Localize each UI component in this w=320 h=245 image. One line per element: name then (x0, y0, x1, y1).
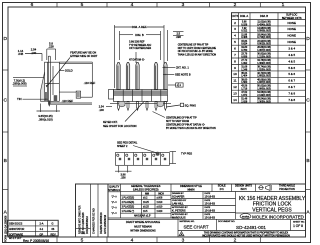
svg-text:(UNLESS SPECIFIED): (UNLESS SPECIFIED) (133, 188, 159, 191)
svg-text:DIM. B: DIM. B (260, 14, 268, 18)
svg-text:±.010: ±.010 (157, 207, 163, 209)
svg-text:.380(±.010): .380(±.010) (38, 117, 52, 121)
proprietary notice text (202, 231, 290, 237)
svg-text:4-2: 4-2 (40, 228, 44, 231)
svg-text:1.560: 1.560 (241, 81, 248, 84)
bottom view: pin pads (dark squares) (119, 158, 121, 160)
svg-text:5 & 6: 5 & 6 (288, 72, 295, 76)
svg-text:1.681(±.015): 1.681(±.015) (257, 75, 271, 78)
svg-text:▽-○: ▽-○ (111, 206, 117, 210)
svg-text:2-A: 2-A (40, 222, 44, 225)
svg-text:14: 14 (233, 98, 237, 102)
svg-text:1.872: 1.872 (241, 94, 248, 97)
front view: friction lock tab (left) (109, 90, 114, 100)
svg-text:4 & 5: 4 & 5 (288, 59, 295, 63)
svg-text:2.149(±.015): 2.149(±.015) (257, 94, 271, 97)
svg-text:MARGULIS: MARGULIS (172, 216, 186, 220)
svg-text:SQ. PINS: SQ. PINS (185, 103, 197, 107)
svg-text:3 PLACE(S): 3 PLACE(S) (122, 206, 135, 209)
svg-text:NONE: NONE (288, 40, 296, 44)
svg-text:CKT. NO. 1: CKT. NO. 1 (176, 65, 190, 69)
svg-text:SYMBOLS: SYMBOLS (108, 189, 120, 192)
front view: DIM. A REF. dimension (114, 25, 116, 88)
svg-text:MUST REMAIN: MUST REMAIN (134, 225, 152, 228)
front view: shaded slot band (114, 90, 167, 94)
svg-text:G: G (52, 222, 54, 225)
third angle projection cell (171, 191, 306, 193)
drawing title text (239, 196, 306, 214)
svg-text:0.156: 0.156 (241, 23, 248, 26)
dim 1.14/.045 leader (upper left) (18, 49, 24, 56)
draft where applicable box (126, 221, 160, 233)
dim 0.4/.016 left of tails (99, 105, 105, 112)
side view: pin (vertical, with solder tail) (47, 56, 49, 101)
chart table data rows (232, 25, 306, 27)
svg-text:SD-42491-001: SD-42491-001 (236, 225, 266, 230)
svg-text:CENTERLINE OF PIN AT TIP: CENTERLINE OF PIN AT TIP (178, 43, 209, 46)
quality symbol marks (111, 195, 117, 216)
title block outer frame (108, 184, 306, 237)
svg-text:▽-○: ▽-○ (111, 195, 117, 199)
svg-text:5 & 6: 5 & 6 (288, 66, 295, 70)
svg-text:1.993(±.015): 1.993(±.015) (257, 88, 271, 91)
svg-text:molex: molex (242, 214, 250, 218)
svg-text:PROJECTION: PROJECTION (279, 188, 295, 191)
svg-text:GEN DOCS: GEN DOCS (9, 222, 23, 225)
chart table column lines (238, 13, 240, 103)
svg-text:1.092: 1.092 (241, 62, 248, 65)
svg-text:BY MORE THAN 0.25/.010 IN ANY: BY MORE THAN 0.25/.010 IN ANY DIRECTION (166, 127, 216, 130)
svg-text:NOT TO VARY FROM: NOT TO VARY FROM (166, 120, 189, 123)
dim 2.5/.098 right of front view (167, 30, 169, 61)
side view: phantom mating outline right (59, 61, 92, 63)
svg-text:CENTERLINE OF PIN AT DATUM -D-: CENTERLINE OF PIN AT DATUM -D- (166, 123, 205, 126)
drawn/checked/approved rows (235, 192, 237, 220)
projection symbol (259, 186, 263, 190)
svg-text:MOLEX INCORPORATED: MOLEX INCORPORATED (252, 214, 304, 219)
front view: pin solder tails (118, 102, 120, 111)
svg-text:AT DATUM -D-: AT DATUM -D- (129, 59, 145, 62)
svg-text:MM/IN: MM/IN (187, 189, 194, 192)
svg-text:.110 REF: .110 REF (84, 81, 96, 85)
svg-text:DIM. A REF.: DIM. A REF. (132, 25, 147, 29)
svg-text:SEE CHART: SEE CHART (183, 224, 208, 229)
svg-text:Rev. P 2005/06/16: Rev. P 2005/06/16 (23, 239, 49, 243)
svg-text:GP: GP (40, 233, 44, 236)
dim TYP PEG right of bottom view (172, 152, 174, 164)
note: centerline of pin at tip (upper right) (178, 43, 217, 56)
svg-text:6 & 7: 6 & 7 (288, 79, 295, 83)
front view: board line below body (110, 103, 171, 105)
svg-text:BETWEEN CKTS: BETWEEN CKTS (282, 17, 302, 20)
svg-text:3: 3 (182, 238, 185, 244)
GD&T feature control frame (176, 83, 183, 87)
svg-text:SHEET 2: SHEET 2 (117, 145, 128, 148)
dim 9.65/.380 bottom (40, 104, 42, 113)
revision block frame (76, 184, 109, 237)
svg-text:CENTERLINE OF PIN AT TIP: CENTERLINE OF PIN AT TIP (166, 117, 197, 120)
proprietary notice box (178, 230, 306, 232)
svg-text:.100: .100 (99, 108, 105, 112)
scale cell (231, 184, 233, 192)
svg-text:THAN 0.25/.010 IN ANY DIRECTIO: THAN 0.25/.010 IN ANY DIRECTION (178, 54, 217, 57)
dimension style cell (211, 184, 213, 192)
svg-text:2.028: 2.028 (241, 100, 248, 103)
svg-text:15-16-83: 15-16-83 (205, 216, 216, 220)
svg-text:2: 2 (234, 21, 236, 25)
svg-text:6: 6 (31, 2, 34, 8)
molex logo and company row (236, 212, 306, 214)
svg-text:0.624: 0.624 (241, 43, 248, 46)
design units cell (255, 184, 257, 192)
zone column numbers top (31, 2, 285, 8)
bottom-left approval table (7, 220, 58, 236)
zone tick marks left/right (3, 69, 9, 71)
note: centerline of pin at tip (lower) (166, 117, 216, 130)
svg-text:0.590(±.015): 0.590(±.015) (257, 30, 271, 33)
svg-text:NONE: NONE (288, 21, 296, 25)
quality symbols box (120, 184, 122, 218)
bottom view: body outline (116, 153, 170, 166)
svg-text:0.468: 0.468 (241, 36, 248, 39)
svg-text:LAM HILL: LAM HILL (172, 202, 184, 206)
svg-text:C: C (3, 98, 7, 104)
svg-text:G1: G1 (81, 231, 86, 235)
svg-text:13: 13 (233, 92, 237, 96)
svg-text:3: 3 (182, 2, 185, 8)
side view: housing body outline (45, 62, 60, 101)
svg-text:INCORPORATED AND SHOULD NOT BE: INCORPORATED AND SHOULD NOT BE USED WITH… (202, 234, 290, 237)
svg-text:1: 1 (282, 2, 285, 8)
front view: pitch note 3.96/.156 TYP (129, 41, 152, 62)
label KEYED CKT / SEE CHART FOR LOCATION (103, 121, 137, 128)
svg-text:10: 10 (233, 72, 237, 76)
svg-text:ANNOTATOR: ANNOTATOR (9, 228, 24, 231)
svg-text:6 & 7: 6 & 7 (288, 85, 295, 89)
svg-text:WITHIN DIMENSIONS: WITHIN DIMENSIONS (130, 230, 156, 233)
svg-text:8: 8 (234, 59, 236, 63)
zone column numbers bottom (81, 238, 237, 244)
svg-text:±0.5: ±0.5 (143, 211, 148, 213)
svg-text:1.248: 1.248 (241, 68, 248, 71)
svg-text:DRAWN 2005/06/16: DRAWN 2005/06/16 (100, 212, 103, 234)
svg-text:7 & 8: 7 & 8 (288, 92, 295, 96)
dim 2.54/.100 (top) (31, 48, 37, 55)
svg-text:2 PLACE(S): 2 PLACE(S) (122, 201, 135, 204)
svg-text:0.434(±.015): 0.434(±.015) (257, 23, 271, 26)
tolerance rows (121, 197, 172, 218)
label 0.76/.030 SQ. PINS (180, 103, 183, 106)
front view: pins (5x vertical square pins) (117, 63, 120, 90)
svg-text:15-16-83: 15-16-83 (205, 209, 216, 213)
svg-text:DESIGN UNITS: DESIGN UNITS (235, 184, 252, 187)
dim 7.5/.295 left (12, 78, 26, 85)
svg-text:.228: .228 (48, 45, 54, 49)
svg-text:DRAFT WHERE APPLICABLE: DRAFT WHERE APPLICABLE (126, 221, 160, 224)
svg-text:±0.2: ±0.2 (143, 198, 148, 200)
side view: friction lock ramp (41, 72, 45, 101)
svg-text:KEYED CKT.: KEYED CKT. (103, 121, 118, 124)
chart table frame (232, 13, 306, 103)
svg-text:±.020: ±.020 (157, 211, 163, 213)
svg-text:1.057(±.015): 1.057(±.015) (257, 49, 271, 52)
svg-text:MATERIAL NO.: MATERIAL NO. (180, 220, 196, 223)
svg-text:SCALE: SCALE (218, 184, 226, 187)
note: FEATURE MAY BE ON EITHER SIDE OF PART (70, 51, 97, 57)
svg-text:±0.25: ±0.25 (143, 207, 149, 209)
side view: pcb line (51, 102, 93, 104)
svg-text:1.837(±.015): 1.837(±.015) (257, 81, 271, 84)
svg-text:TIN: TIN (17, 97, 22, 101)
svg-text:15-16-83: 15-16-83 (205, 202, 216, 206)
svg-text:C: C (306, 98, 310, 104)
svg-text:0.312: 0.312 (241, 30, 248, 33)
svg-text:.045: .045 (18, 52, 24, 56)
zone row letters right (306, 36, 310, 216)
side view: pin solder tip (dark) (48, 101, 50, 107)
svg-text:GOLD: GOLD (65, 69, 73, 73)
svg-text:NOT TO VARY FROM CENTERLINE: NOT TO VARY FROM CENTERLINE (178, 47, 217, 50)
svg-text:INCH: INCH (241, 188, 247, 191)
svg-text:5: 5 (234, 40, 236, 44)
svg-text:2.305(±.015): 2.305(±.015) (257, 100, 271, 103)
svg-text:.110 REF: .110 REF (62, 99, 74, 103)
svg-text:0.746(±.015): 0.746(±.015) (257, 36, 271, 39)
svg-text:▽-○: ▽-○ (111, 200, 117, 204)
svg-text:DOCUMENT NO.: DOCUMENT NO. (218, 221, 235, 223)
svg-text:2=1: 2=1 (220, 188, 225, 191)
svg-text:D: D (306, 36, 310, 42)
svg-text:▽-○: ▽-○ (111, 211, 117, 215)
revision letter cells (76, 228, 91, 230)
svg-text:0.902(±.015): 0.902(±.015) (257, 43, 271, 46)
svg-text:SEE CHART FOR LOCATION: SEE CHART FOR LOCATION (103, 125, 137, 128)
svg-text:±0.25: ±0.25 (143, 202, 149, 204)
svg-text:EITHER SIDE OF PART: EITHER SIDE OF PART (70, 55, 97, 58)
svg-text:A: A (181, 232, 183, 236)
svg-text:.156: .156 (120, 176, 126, 180)
svg-text:1 PLACE(S): 1 PLACE(S) (122, 197, 135, 200)
svg-text:B: B (306, 158, 309, 164)
svg-text:THIS DRAWING CONTAINS INFORMAT: THIS DRAWING CONTAINS INFORMATION THAT I… (204, 231, 289, 234)
svg-text:9: 9 (234, 66, 236, 70)
front view: housing body (114, 90, 168, 102)
bottom view: highlighted peg (filled) (156, 152, 160, 156)
svg-text:1.404: 1.404 (241, 75, 248, 78)
svg-text:APPR 2005/06/16: APPR 2005/06/16 (104, 214, 107, 234)
svg-text:1.716: 1.716 (241, 88, 248, 91)
svg-text:2: 2 (234, 238, 237, 244)
dim 5.8/.228 (top of side view) (48, 41, 54, 48)
svg-text:SEE NOTE B: SEE NOTE B (175, 73, 191, 77)
front view: DIM. B dimension (119, 31, 121, 60)
svg-text:11: 11 (233, 79, 236, 83)
svg-text:TYP PEG: TYP PEG (181, 151, 192, 155)
svg-text:±.010: ±.010 (157, 202, 163, 204)
svg-text:K. PETERS: K. PETERS (172, 209, 186, 213)
material no / see chart cell (108, 218, 306, 220)
note SEE PEG DETAIL SHEET 2 (117, 141, 138, 147)
revision block rotated entries (79, 205, 108, 234)
svg-text:1.213(±.015): 1.213(±.015) (257, 55, 271, 58)
svg-text:D: D (3, 36, 7, 42)
svg-text:5: 5 (81, 238, 84, 244)
svg-text:DIM. A: DIM. A (240, 14, 248, 18)
svg-text:CKT CENTERLINES: CKT CENTERLINES (129, 47, 152, 50)
svg-text:0.780: 0.780 (241, 49, 248, 52)
svg-text:NO 1 P 1R T: NO 1 P 1R T (9, 238, 22, 240)
sheet number cell (290, 219, 292, 230)
svg-text:SOFTWARE: SOFTWARE (9, 233, 23, 236)
svg-text:3: 3 (234, 27, 236, 31)
svg-text:CHANGED PER EC NO: CHANGED PER EC NO (93, 208, 96, 234)
svg-text:VERTICAL PEGS: VERTICAL PEGS (252, 207, 292, 213)
svg-text:B: B (4, 158, 7, 164)
svg-text:3 & 4: 3 & 4 (288, 47, 295, 51)
warning triangle (179, 232, 184, 236)
svg-text:4: 4 (234, 34, 236, 38)
svg-text:12: 12 (233, 85, 237, 89)
chart table header row (232, 19, 306, 21)
bottom view: peg holes (circles) (117, 154, 119, 156)
svg-text:.100: .100 (31, 51, 37, 55)
svg-text:7: 7 (234, 53, 236, 57)
svg-text:7 & 8: 7 & 8 (288, 98, 295, 102)
svg-text:4: 4 (131, 2, 134, 8)
svg-text:1.369(±.015): 1.369(±.015) (257, 62, 271, 65)
svg-text:2: 2 (234, 2, 237, 8)
svg-text:REMOVE MTG DWG PER: REMOVE MTG DWG PER (79, 205, 82, 234)
svg-text:0.936: 0.936 (241, 55, 248, 58)
svg-text:DIM. B: DIM. B (135, 33, 144, 37)
zone tick marks top/bottom (56, 3, 58, 8)
svg-text:.295(±.008): .295(±.008) (12, 82, 26, 86)
svg-text:REV: REV (51, 233, 56, 236)
svg-text:6: 6 (234, 47, 236, 51)
svg-text:4 & 5: 4 & 5 (288, 53, 295, 57)
svg-text:5: 5 (81, 2, 84, 8)
svg-text:1 PLACE (°): 1 PLACE (°) (122, 210, 135, 213)
front view: pegs under housing (119, 102, 125, 107)
svg-text:NONE: NONE (288, 34, 296, 38)
general tolerances box (170, 184, 172, 218)
svg-text:OF PIN AT DATUM -D- BY MORE: OF PIN AT DATUM -D- BY MORE (178, 50, 213, 53)
svg-text:SCHAFER: SCHAFER (172, 195, 185, 199)
svg-text:DCR 2005/06/16: DCR 2005/06/16 (86, 216, 89, 234)
bottom view: circuit cell dividers (124, 153, 126, 166)
zone row letters left (3, 36, 7, 216)
svg-text:15-16-83: 15-16-83 (205, 195, 216, 199)
svg-text:.098: .098 (176, 35, 182, 39)
document number cell (216, 219, 218, 230)
svg-text:±.008: ±.008 (157, 198, 163, 200)
side view: latch cross-section (dark) (54, 95, 58, 101)
dim 3.96/.156 below bottom view (118, 166, 120, 173)
svg-text:ANGULAR ±1.5°: ANGULAR ±1.5° (134, 215, 151, 218)
svg-text:2.5: 2.5 (176, 32, 180, 36)
svg-text:CKTS: CKTS (231, 14, 238, 18)
side view: retention foot block (76, 91, 80, 98)
svg-text:4: 4 (131, 238, 134, 244)
svg-text:1 OF 8: 1 OF 8 (293, 224, 303, 228)
svg-text:NONE: NONE (288, 27, 296, 31)
svg-text:1.525(±.015): 1.525(±.015) (257, 68, 271, 71)
